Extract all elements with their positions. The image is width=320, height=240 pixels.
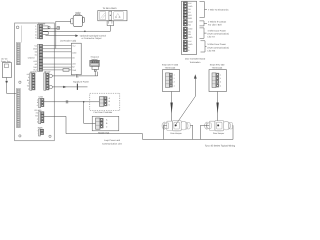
wire relay upper to snaplock [52, 72, 97, 76]
pcb trace to header strip [20, 26, 22, 43]
door controller termination strip TB8 [182, 1, 197, 54]
svg-text:4: 4 [220, 84, 221, 87]
svg-text:GND: GND [72, 51, 77, 54]
svg-text:D0: D0 [188, 8, 190, 11]
door strike LK1 body [73, 15, 82, 26]
relay K1 plug-in base [107, 21, 114, 26]
svg-text:Supply In Power: Supply In Power [73, 81, 89, 84]
door strike left terminal lug [71, 19, 74, 24]
reader cable box J3 [71, 43, 81, 75]
header strip J2 lower segment [16, 89, 20, 128]
svg-text:PW: PW [35, 115, 38, 118]
capacitor C2 on comm wire [66, 100, 68, 103]
bracket group 3 inputs [200, 28, 207, 38]
wire transformer to board header [7, 83, 17, 94]
svg-text:Smart RTU-400: Smart RTU-400 [210, 64, 225, 67]
svg-text:COM: COM [188, 20, 193, 23]
header strip J1 upper segment [16, 43, 20, 65]
right wall plate box [209, 70, 226, 92]
controller board U1 outline [15, 23, 55, 141]
svg-text:GND: GND [188, 5, 193, 8]
svg-text:Reader Hub: Reader Hub [98, 132, 110, 135]
wire bus stub to left lock [164, 125, 167, 139]
terminal block reader hub [96, 118, 109, 129]
mounting hole top-left [16, 26, 19, 29]
svg-text:+12: +12 [34, 45, 37, 48]
left door lock assembly [162, 121, 190, 131]
wire reader LED to cable box [43, 63, 72, 65]
arrowhead on supply stub [63, 86, 66, 88]
wire comm block to first door controller [44, 101, 100, 103]
svg-text:GND: GND [188, 36, 193, 39]
svg-text:For Like / Bell: For Like / Bell [208, 23, 222, 26]
svg-text:2: 2 [174, 77, 175, 80]
fire alarm relay K1 box [98, 11, 127, 21]
wire reader D1 up to door strike [56, 21, 71, 48]
svg-text:Optional Open/gnd Control: Optional Open/gnd Control [80, 34, 107, 37]
svg-text:GND: GND [188, 43, 193, 46]
svg-text:(to Reader Cab): (to Reader Cab) [60, 40, 76, 43]
suppressor MOV1 across lock [57, 27, 60, 30]
callout arrow to termination label [194, 77, 196, 97]
wire reader shield to cable box [43, 57, 72, 59]
wire reader GND to cable box [43, 48, 72, 50]
relay K1 right contact cell [114, 12, 124, 20]
wire relay base down to bus [109, 26, 111, 32]
wire power terminal 2 to lock suppressor [43, 28, 57, 30]
svg-text:GND: GND [33, 48, 38, 51]
dashed enclosure first door controller [90, 93, 120, 110]
right wall plate terminal block [212, 73, 221, 88]
svg-text:Door Keeper: Door Keeper [170, 132, 182, 135]
terminal block TB6 RS-485 [35, 112, 44, 124]
svg-text:Communication Line: Communication Line [102, 142, 123, 145]
relay K1 coil element [109, 11, 112, 20]
wire reader RLS to cable box [43, 69, 72, 71]
jumper across Power terminals 1-2 [43, 26, 49, 29]
loop power wire from RS-485 [44, 116, 233, 139]
mounting hole bottom-right [49, 135, 51, 137]
svg-text:or Connector Output: or Connector Output [82, 37, 102, 40]
wire bus stub to right lock [201, 125, 210, 139]
snaplock module M1 [90, 60, 100, 71]
down arrowhead on left drop [170, 103, 172, 114]
svg-text:D1: D1 [35, 54, 37, 57]
svg-text:First Door Controller: First Door Controller [94, 111, 113, 114]
termination strip pin labels [188, 2, 193, 52]
left lock keyhole node [175, 124, 177, 126]
optional output arrow wire [46, 35, 76, 37]
relay NO ring terminal upper [49, 74, 52, 77]
callout leader diagonal [176, 96, 195, 124]
svg-text:3: 3 [174, 81, 175, 84]
left wall plate terminal block [166, 73, 175, 88]
door strike right terminal lug [83, 17, 85, 22]
inline connector on RLS wire [63, 69, 69, 72]
relay NO ring terminal lower [49, 85, 52, 88]
bracket group 2 lock contact [200, 21, 208, 26]
terminal block TB1 Power [35, 24, 42, 39]
svg-text:2: 2 [220, 77, 221, 80]
strain relief bar on supply stub [76, 84, 78, 90]
svg-text:Like TX: Like TX [208, 36, 216, 39]
svg-text:Thermostat: Thermostat [212, 66, 223, 69]
svg-text:4 Wire Door Power: 4 Wire Door Power [208, 29, 227, 32]
wire reader D0 to cable box [43, 51, 72, 53]
wire left wall plate down to reader [171, 92, 173, 122]
svg-text:Thermostat: Thermostat [165, 66, 176, 69]
cord grommet node [6, 81, 8, 83]
svg-text:D0: D0 [35, 51, 37, 54]
terminal block TB3 door inputs [27, 73, 35, 90]
jumper across Power terminals 3-4 [43, 32, 49, 35]
svg-text:1: 1 [220, 73, 221, 76]
svg-text:Tyco 45 Series Typical Wiring: Tyco 45 Series Typical Wiring [205, 145, 235, 148]
svg-text:5 Wire Door Power: 5 Wire Door Power [208, 43, 227, 46]
junction node on comm wire [83, 101, 85, 103]
door strike top tab [76, 14, 80, 15]
down arrowhead on right drop [216, 103, 218, 114]
svg-text:(AUX communication): (AUX communication) [208, 46, 230, 49]
svg-text:Smart DC/T-4100: Smart DC/T-4100 [162, 64, 179, 67]
snaplock stem wire [94, 71, 96, 76]
terminal block TB5 comm [37, 98, 44, 108]
svg-text:To Fire Alarm: To Fire Alarm [103, 7, 117, 10]
terminal block TB4 relay outputs [44, 73, 49, 90]
wire right lock right side down to bus [232, 125, 234, 139]
svg-text:Termination: Termination [190, 61, 202, 64]
wire left lock right side down to bus [190, 125, 193, 139]
mounting hole mid-left [19, 81, 21, 83]
transformer blade outlet [5, 64, 9, 68]
transformer PS1 body [2, 63, 11, 78]
mounting hole top-right [48, 26, 50, 28]
right door lock assembly [205, 121, 233, 131]
wire right wall plate down to reader [217, 92, 219, 122]
terminal block TB2 Reader outputs [28, 44, 43, 71]
svg-text:IN1: IN1 [188, 30, 191, 33]
bracket group 4 comm [201, 41, 207, 52]
wire reader TMP to cable box [43, 66, 72, 68]
svg-text:Door Controller Board: Door Controller Board [185, 58, 206, 61]
reader terminal pin labels [28, 45, 38, 72]
wire relay lower supply stub [52, 86, 87, 88]
svg-text:Like RX: Like RX [208, 49, 216, 52]
terminal block first controller [99, 97, 110, 107]
svg-text:GND/SH: GND/SH [28, 57, 36, 60]
wire power terminal 3 to fire alarm relay [43, 30, 111, 32]
svg-text:4: 4 [174, 84, 175, 87]
enclosure reader hub [92, 116, 119, 131]
svg-text:Loop Power and: Loop Power and [104, 139, 121, 142]
svg-text:RS-485: RS-485 [35, 109, 43, 112]
svg-text:7 Wire To Electronics: 7 Wire To Electronics [208, 8, 229, 11]
transformer cord stem [6, 78, 8, 81]
svg-text:3: 3 [220, 81, 221, 84]
svg-text:+: + [37, 130, 38, 132]
svg-text:D0: D0 [72, 57, 74, 60]
svg-text:1: 1 [174, 73, 175, 76]
wire reader +12 to cable box [43, 45, 72, 47]
terminal block TB7 power input [37, 129, 44, 136]
junction node on fire alarm wire [84, 31, 86, 33]
svg-text:2 Wire/2 If Contact: 2 Wire/2 If Contact [208, 20, 227, 23]
relay K1 left contact cell [100, 12, 106, 20]
svg-text:IN2: IN2 [188, 33, 191, 36]
svg-text:Door Keeper: Door Keeper [213, 132, 225, 135]
mounting hole bottom-left [19, 135, 21, 137]
bracket group 1 reader wires [200, 2, 208, 18]
right lock keyhole node [217, 124, 219, 126]
left wall plate box [163, 70, 180, 92]
svg-text:D1: D1 [188, 11, 190, 14]
capacitor C1 in lock circuit [76, 74, 78, 77]
svg-text:(AUX communication): (AUX communication) [208, 33, 230, 36]
svg-text:GND: GND [188, 27, 193, 30]
svg-text:+12: +12 [72, 45, 75, 48]
branch wire to reader hub [84, 102, 96, 124]
